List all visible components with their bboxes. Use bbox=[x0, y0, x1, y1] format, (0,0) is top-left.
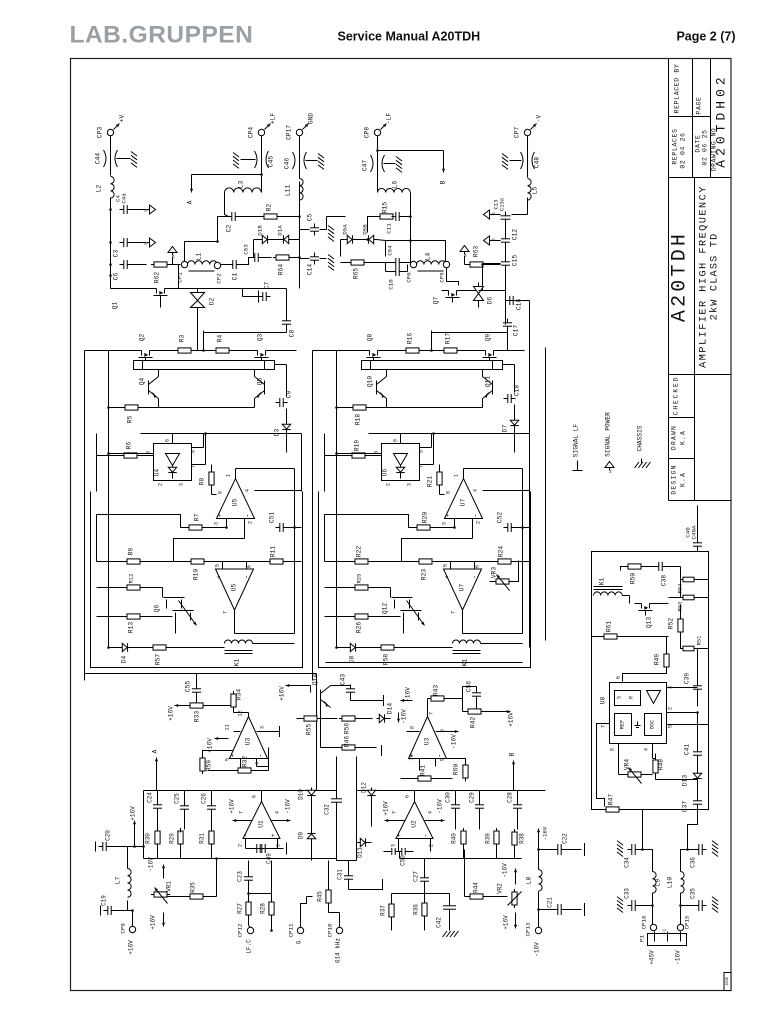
connector P1 bbox=[639, 929, 687, 946]
svg-text:D9: D9 bbox=[298, 832, 305, 840]
diode D4 bbox=[109, 643, 151, 663]
signal power symbol bbox=[168, 247, 177, 265]
resistor R40 bbox=[451, 828, 467, 859]
svg-text:D5A: D5A bbox=[342, 224, 349, 235]
svg-text:Page 2 (7): Page 2 (7) bbox=[676, 30, 735, 44]
diode D1A bbox=[274, 225, 300, 244]
svg-text:R17: R17 bbox=[445, 333, 452, 344]
wire U2 bus bbox=[357, 757, 546, 861]
svg-text:3: 3 bbox=[276, 844, 282, 847]
svg-text:DESIGN: DESIGN bbox=[671, 464, 678, 494]
svg-text:R15: R15 bbox=[382, 202, 389, 213]
inductor L11 bbox=[285, 179, 304, 201]
svg-text:CHASSIS: CHASSIS bbox=[637, 425, 644, 451]
svg-text:R30: R30 bbox=[145, 833, 152, 844]
capacitor C10 bbox=[386, 263, 408, 290]
op-amp U7 bbox=[442, 469, 530, 539]
svg-text:+16V: +16V bbox=[503, 915, 510, 930]
svg-text:L7: L7 bbox=[115, 877, 122, 885]
svg-text:VR3: VR3 bbox=[491, 567, 498, 578]
svg-text:F1: F1 bbox=[662, 929, 668, 935]
svg-text:Q4: Q4 bbox=[139, 378, 146, 386]
resistor R15 bbox=[368, 202, 397, 233]
op-amp U3 right bbox=[407, 699, 449, 771]
svg-text:VR2: VR2 bbox=[497, 883, 504, 894]
svg-text:+: + bbox=[396, 833, 403, 837]
svg-text:C48: C48 bbox=[534, 157, 541, 168]
capacitor C33 bbox=[617, 888, 654, 913]
op-amp U2 bbox=[390, 791, 440, 852]
svg-text:+45V: +45V bbox=[649, 950, 656, 965]
resistor R64 bbox=[273, 255, 301, 275]
svg-text:SIGNAL LF: SIGNAL LF bbox=[573, 424, 580, 458]
svg-text:CP9: CP9 bbox=[120, 923, 127, 934]
svg-text:Q13: Q13 bbox=[646, 617, 653, 628]
svg-text:C23: C23 bbox=[237, 871, 244, 882]
capacitor C18 bbox=[503, 365, 521, 404]
capacitor C20 bbox=[96, 830, 135, 852]
wire module box bbox=[91, 492, 303, 668]
svg-text:C3: C3 bbox=[113, 250, 120, 258]
resistor R38 bbox=[512, 829, 526, 859]
title block A20TDH02 bbox=[714, 73, 729, 167]
potentiometer VR4 bbox=[619, 756, 653, 784]
resistor R26 bbox=[325, 614, 401, 633]
svg-text:SP: SP bbox=[465, 253, 469, 257]
svg-text:B: B bbox=[509, 752, 516, 756]
svg-text:R13: R13 bbox=[128, 622, 135, 633]
capacitor C48 bbox=[502, 136, 541, 178]
svg-text:R4: R4 bbox=[217, 335, 224, 343]
svg-text:4: 4 bbox=[275, 811, 281, 814]
legend SIGNAL POWER bbox=[605, 412, 615, 473]
svg-text:7: 7 bbox=[392, 811, 398, 814]
-16V arrow VR1 bbox=[148, 857, 166, 879]
svg-text:L4: L4 bbox=[425, 253, 432, 261]
svg-text:CP17: CP17 bbox=[286, 125, 293, 140]
mosfet Q9 bbox=[479, 334, 501, 363]
svg-text:2: 2 bbox=[158, 483, 164, 486]
capacitor C2 bbox=[226, 212, 240, 232]
capacitor C55 bbox=[185, 674, 202, 706]
svg-text:R22: R22 bbox=[356, 546, 363, 557]
svg-text:2: 2 bbox=[429, 844, 435, 847]
svg-text:CP4: CP4 bbox=[248, 127, 255, 138]
wire right bus bbox=[521, 434, 529, 634]
resistor R30 bbox=[145, 828, 161, 859]
resistor R5 bbox=[122, 399, 159, 424]
resistor R43 bbox=[428, 685, 463, 701]
svg-text:C10: C10 bbox=[388, 279, 395, 290]
svg-text:C22: C22 bbox=[562, 833, 569, 844]
svg-text:-: - bbox=[473, 513, 481, 517]
wire U1 bus bbox=[144, 757, 337, 807]
svg-text:VR1: VR1 bbox=[166, 881, 173, 892]
svg-text:com: com bbox=[725, 977, 730, 985]
test point CP7 -V bbox=[514, 115, 543, 139]
svg-text:L11: L11 bbox=[285, 185, 292, 196]
svg-text:7: 7 bbox=[223, 611, 229, 614]
svg-text:C18: C18 bbox=[514, 385, 521, 396]
svg-text:R: R bbox=[629, 696, 635, 699]
svg-text:R33: R33 bbox=[194, 711, 201, 722]
op-amp U5 bbox=[215, 562, 254, 634]
capacitor C52 bbox=[497, 512, 530, 532]
resistor R63 bbox=[465, 246, 501, 267]
resistor R9 bbox=[97, 548, 191, 565]
svg-text:R62: R62 bbox=[154, 272, 161, 283]
svg-text:C31: C31 bbox=[337, 869, 344, 880]
svg-text:7: 7 bbox=[239, 811, 245, 814]
svg-text:U7: U7 bbox=[459, 584, 466, 592]
capacitor C42 bbox=[425, 894, 459, 938]
resistor R46 bbox=[321, 704, 382, 757]
mosfet Q3 bbox=[251, 334, 273, 363]
capacitor C11 bbox=[386, 212, 411, 234]
svg-text:3: 3 bbox=[442, 522, 448, 525]
svg-text:AMPLIFIER HIGH FREQUENCY: AMPLIFIER HIGH FREQUENCY bbox=[699, 185, 710, 368]
diode D13 bbox=[682, 771, 702, 797]
svg-text:U5: U5 bbox=[231, 584, 238, 592]
svg-text:R47: R47 bbox=[608, 794, 615, 805]
svg-text:R60: R60 bbox=[453, 764, 460, 775]
IC U8 bbox=[597, 676, 709, 807]
svg-text:SIGNAL POWER: SIGNAL POWER bbox=[605, 412, 612, 457]
svg-text:8: 8 bbox=[218, 491, 224, 494]
resistor R37 bbox=[380, 894, 425, 931]
svg-text:R63: R63 bbox=[473, 246, 480, 257]
svg-text:CP2: CP2 bbox=[216, 273, 223, 284]
capacitor C39 bbox=[684, 649, 703, 707]
svg-text:A20TDH02: A20TDH02 bbox=[714, 73, 729, 167]
diode D1B bbox=[254, 225, 274, 258]
resistor R4 bbox=[213, 335, 232, 354]
diode D6 bowtie bbox=[474, 283, 494, 308]
svg-text:2: 2 bbox=[668, 707, 674, 710]
resistor R52 bbox=[668, 605, 684, 649]
svg-text:CP7: CP7 bbox=[514, 127, 521, 138]
svg-text:D12: D12 bbox=[361, 782, 368, 793]
svg-text:CP15: CP15 bbox=[684, 915, 691, 929]
svg-text:-V: -V bbox=[536, 115, 543, 123]
svg-text:K1: K1 bbox=[599, 578, 606, 586]
svg-text:C39: C39 bbox=[684, 673, 691, 684]
svg-text:L3: L3 bbox=[238, 181, 245, 189]
svg-text:5: 5 bbox=[191, 450, 197, 453]
svg-text:CP12: CP12 bbox=[237, 923, 244, 937]
capacitor C50 bbox=[384, 848, 414, 866]
capacitor C35 bbox=[679, 888, 718, 913]
svg-text:5: 5 bbox=[668, 725, 674, 728]
diode D8 bbox=[337, 643, 379, 663]
test point CP10 614kHz bbox=[327, 913, 343, 964]
svg-text:C20: C20 bbox=[105, 830, 112, 841]
wire top rail bbox=[339, 331, 525, 352]
+16V arrow C20 bbox=[130, 806, 137, 848]
svg-text:C2: C2 bbox=[226, 225, 233, 233]
+16V arrow U2 bbox=[383, 801, 390, 822]
svg-text:R29: R29 bbox=[169, 833, 176, 844]
svg-text:-16V: -16V bbox=[451, 734, 458, 749]
potentiometer VR2 bbox=[497, 863, 522, 930]
op-amp U6 bbox=[338, 434, 434, 487]
capacitor C49 bbox=[246, 843, 287, 864]
svg-text:C54: C54 bbox=[387, 245, 394, 256]
resistor R60 bbox=[436, 759, 469, 782]
resistor R8 bbox=[199, 465, 217, 495]
op-amp U1 bbox=[237, 791, 287, 849]
title block DRAWING NO bbox=[711, 128, 718, 171]
transistor Q11 bbox=[483, 361, 493, 399]
svg-text:R39: R39 bbox=[485, 833, 492, 844]
+16V arrow U3 bbox=[207, 737, 229, 753]
svg-text:C36: C36 bbox=[690, 857, 697, 868]
svg-text:4: 4 bbox=[255, 762, 261, 765]
title block REPLACED BY bbox=[674, 64, 681, 114]
svg-text:R18: R18 bbox=[355, 414, 362, 425]
svg-text:L6: L6 bbox=[392, 181, 399, 189]
svg-text:02 06 25: 02 06 25 bbox=[702, 129, 709, 165]
svg-text:3: 3 bbox=[407, 483, 413, 486]
svg-text:6: 6 bbox=[405, 795, 411, 798]
test point CP2 bbox=[214, 262, 222, 283]
svg-text:C28: C28 bbox=[507, 792, 514, 803]
wire bottom knit bbox=[135, 807, 357, 895]
svg-text:CP5: CP5 bbox=[439, 272, 446, 283]
svg-text:REPLACED BY: REPLACED BY bbox=[674, 64, 681, 114]
capacitor C46 bbox=[284, 136, 325, 179]
resistor R55 bbox=[297, 716, 338, 735]
svg-text:+16V: +16V bbox=[168, 706, 175, 721]
svg-text:R58: R58 bbox=[383, 654, 390, 665]
resistor R44 bbox=[465, 850, 508, 900]
svg-text:C53: C53 bbox=[243, 244, 250, 255]
capacitor C30 bbox=[445, 791, 461, 830]
svg-text:2: 2 bbox=[476, 521, 482, 524]
inductor L8 bbox=[526, 826, 549, 927]
svg-text:D6: D6 bbox=[487, 297, 494, 305]
svg-text:C4a: C4a bbox=[121, 193, 128, 204]
svg-text:R25: R25 bbox=[357, 574, 363, 584]
capacitor C15 bbox=[483, 247, 519, 289]
resistor R53 bbox=[678, 580, 709, 612]
capacitor C28 bbox=[507, 791, 523, 830]
+16V arrow VR1 bbox=[150, 913, 166, 930]
svg-text:3: 3 bbox=[391, 844, 397, 847]
svg-text:D11: D11 bbox=[357, 847, 364, 858]
resistor R65 bbox=[341, 260, 386, 279]
svg-text:2: 2 bbox=[248, 521, 254, 524]
svg-text:C32: C32 bbox=[324, 804, 331, 815]
resistor R31 bbox=[199, 828, 215, 859]
svg-text:D1A: D1A bbox=[277, 225, 284, 236]
signal power symbol R63 bbox=[460, 246, 469, 265]
svg-text:L9: L9 bbox=[655, 879, 662, 887]
svg-text:REF: REF bbox=[620, 720, 626, 730]
svg-text:CP13: CP13 bbox=[525, 922, 532, 936]
svg-text:C15: C15 bbox=[512, 255, 519, 266]
svg-text:7: 7 bbox=[419, 465, 425, 468]
wire top knit bbox=[300, 217, 506, 291]
svg-text:7: 7 bbox=[191, 465, 197, 468]
svg-text:5: 5 bbox=[419, 450, 425, 453]
svg-text:4: 4 bbox=[644, 748, 650, 751]
capacitor C31 bbox=[337, 861, 383, 891]
wire osc box bbox=[592, 552, 709, 810]
capacitor C51 bbox=[269, 512, 302, 532]
svg-text:C46: C46 bbox=[284, 158, 291, 169]
svg-text:D5B: D5B bbox=[362, 224, 369, 235]
svg-text:7: 7 bbox=[601, 725, 607, 728]
diode D5B bbox=[362, 224, 386, 257]
node A arrow lower bbox=[152, 749, 159, 790]
svg-text:6: 6 bbox=[165, 439, 171, 442]
svg-text:Q6: Q6 bbox=[154, 605, 161, 613]
svg-text:R9: R9 bbox=[128, 548, 135, 556]
-16V arrow U1 bbox=[285, 799, 292, 822]
resistor R23 bbox=[416, 559, 498, 580]
svg-text:C29: C29 bbox=[469, 792, 476, 803]
svg-text:R11: R11 bbox=[270, 546, 277, 557]
title block PAGE bbox=[696, 96, 703, 114]
svg-text:-16V: -16V bbox=[534, 942, 541, 957]
svg-text:CP11: CP11 bbox=[288, 923, 295, 937]
svg-text:R40: R40 bbox=[451, 833, 458, 844]
wire CP3 bus bbox=[110, 198, 112, 289]
svg-text:8: 8 bbox=[610, 748, 616, 751]
inductor L2 bbox=[96, 177, 115, 199]
wire right bus bbox=[293, 434, 301, 634]
svg-text:5: 5 bbox=[443, 564, 449, 567]
wire U2 lower bus bbox=[357, 852, 522, 861]
resistor R32 bbox=[209, 748, 269, 774]
svg-text:R21: R21 bbox=[427, 476, 434, 487]
svg-text:+16V: +16V bbox=[229, 799, 236, 814]
title block CHECKED bbox=[673, 376, 680, 415]
resistor R58 bbox=[378, 645, 453, 665]
header title bbox=[338, 30, 481, 44]
op-amp U3 bbox=[225, 710, 280, 770]
resistor R17 bbox=[441, 333, 460, 353]
test point CP16 bbox=[641, 915, 657, 931]
wire top rail bbox=[111, 331, 297, 352]
svg-text:K.A: K.A bbox=[680, 472, 687, 487]
svg-text:Q9: Q9 bbox=[485, 334, 492, 342]
inductor L3 bbox=[225, 181, 262, 193]
capacitor C43 bbox=[340, 674, 384, 706]
test point CP11 G bbox=[288, 897, 313, 945]
svg-text:R37: R37 bbox=[380, 905, 387, 916]
svg-text:R51: R51 bbox=[697, 636, 703, 646]
wire L3-C2 bbox=[225, 193, 229, 217]
resistor R57 bbox=[150, 645, 225, 665]
svg-text:SP: SP bbox=[610, 469, 614, 473]
svg-text:4: 4 bbox=[428, 811, 434, 814]
svg-text:R38: R38 bbox=[519, 833, 526, 844]
outer frame bbox=[71, 59, 732, 991]
svg-text:D2: D2 bbox=[209, 298, 216, 306]
svg-text:614 kHz: 614 kHz bbox=[335, 938, 342, 964]
resistor R36 bbox=[413, 894, 428, 931]
svg-text:Q5: Q5 bbox=[257, 378, 264, 386]
svg-text:C30: C30 bbox=[445, 792, 452, 803]
svg-text:A: A bbox=[152, 749, 159, 753]
svg-text:5: 5 bbox=[215, 564, 221, 567]
transistor Q5 bbox=[255, 361, 265, 399]
wire drain bar bbox=[362, 361, 503, 370]
test point CP4 +LF bbox=[248, 113, 277, 138]
svg-text:D13: D13 bbox=[682, 775, 689, 786]
relay coil K1 K1 bbox=[453, 640, 523, 666]
capacitor C9 bbox=[275, 365, 293, 408]
capacitor C22 bbox=[539, 833, 585, 856]
svg-text:U3: U3 bbox=[245, 738, 252, 746]
svg-text:-16V: -16V bbox=[285, 799, 292, 814]
svg-text:-: - bbox=[244, 575, 252, 579]
capacitor C16 bbox=[506, 268, 523, 311]
svg-text:SP: SP bbox=[173, 254, 177, 258]
svg-text:+V: +V bbox=[119, 115, 126, 123]
capacitor C47 bbox=[362, 136, 403, 193]
svg-text:D14: D14 bbox=[387, 703, 394, 714]
svg-text:CHECKED: CHECKED bbox=[673, 376, 680, 415]
capacitor C5 bbox=[298, 182, 334, 242]
capacitor C21 bbox=[539, 897, 585, 916]
svg-text:U4: U4 bbox=[154, 469, 161, 477]
svg-text:C17: C17 bbox=[513, 325, 520, 336]
svg-text:R55: R55 bbox=[306, 724, 313, 735]
svg-text:C25: C25 bbox=[174, 793, 181, 804]
resistor R28 bbox=[260, 861, 275, 932]
-16V arrow U3r bbox=[449, 730, 459, 749]
svg-text:R61: R61 bbox=[606, 621, 613, 632]
resistor R12 bbox=[97, 574, 163, 590]
svg-text:C37: C37 bbox=[682, 801, 689, 812]
svg-text:DATE: DATE bbox=[695, 134, 702, 152]
svg-text:R46: R46 bbox=[344, 736, 351, 747]
resistor R21 bbox=[427, 465, 445, 495]
svg-text:R26: R26 bbox=[356, 622, 363, 633]
resistor R20 bbox=[325, 512, 456, 530]
svg-text:Q14: Q14 bbox=[312, 674, 319, 685]
resistor R34 bbox=[231, 689, 243, 713]
svg-text:Q7: Q7 bbox=[433, 297, 440, 305]
svg-text:U2: U2 bbox=[411, 820, 418, 828]
svg-text:REPLACES: REPLACES bbox=[672, 128, 679, 164]
resistor R22 bbox=[325, 546, 419, 564]
capacitor C25 bbox=[174, 791, 190, 830]
test point CP5 bbox=[439, 261, 450, 282]
arrow -16V U3r bbox=[401, 687, 413, 702]
svg-text:2kW CLASS TD: 2kW CLASS TD bbox=[709, 233, 721, 321]
svg-text:VR4: VR4 bbox=[624, 759, 631, 770]
svg-text:CP6: CP6 bbox=[406, 272, 413, 283]
svg-text:L1: L1 bbox=[196, 253, 203, 261]
svg-text:L2: L2 bbox=[96, 185, 103, 193]
test point CP6 bbox=[406, 261, 417, 282]
svg-text:D3: D3 bbox=[274, 429, 281, 437]
capacitor C14 bbox=[300, 230, 335, 276]
resistor R61 bbox=[592, 621, 669, 639]
resistor R25 bbox=[325, 574, 391, 590]
svg-text:A: A bbox=[187, 200, 194, 204]
resistor R59 bbox=[200, 751, 234, 775]
svg-text:C6: C6 bbox=[113, 273, 120, 281]
svg-text:-16V: -16V bbox=[542, 826, 549, 840]
test point CP8 -LF bbox=[364, 113, 393, 138]
svg-text:R28: R28 bbox=[260, 903, 267, 914]
diode D2 bowtie bbox=[191, 289, 216, 316]
